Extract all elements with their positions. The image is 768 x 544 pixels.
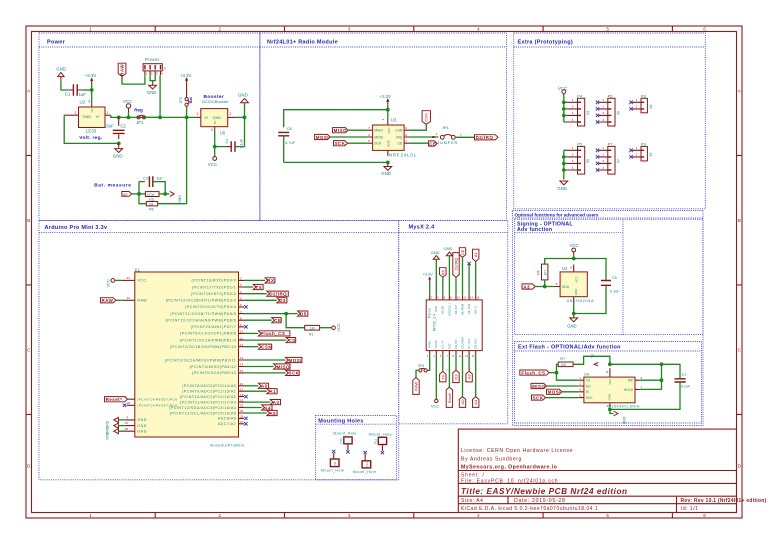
svg-text:KiCad E.D.A. kicad 5.0.2-bee7: KiCad E.D.A. kicad 5.0.2-bee76a070ubuntu… xyxy=(461,506,598,512)
resistor R4 (signing pullup) xyxy=(537,264,548,280)
svg-text:VO: VO xyxy=(90,107,94,112)
junction VCC rail xyxy=(127,116,131,120)
svg-text:MISO: MISO xyxy=(277,364,290,369)
no-connect x r8 PD7 xyxy=(244,325,247,328)
svg-text:X4: X4 xyxy=(586,111,590,115)
svg-text:JP3: JP3 xyxy=(418,364,425,368)
svg-text:Size: A4: Size: A4 xyxy=(461,498,483,504)
svg-text:17: 17 xyxy=(240,387,244,391)
svg-text:C1: C1 xyxy=(65,91,71,96)
ground GND (below C2) xyxy=(113,143,123,158)
svg-text:MOSI: MOSI xyxy=(374,135,383,139)
no-connect x r5 PD4 xyxy=(244,305,247,308)
junction VCC rail (signing) xyxy=(572,257,576,261)
svg-text:VCC: VCC xyxy=(575,275,579,282)
svg-text:VCC: VCC xyxy=(137,279,146,283)
svg-text:14: 14 xyxy=(240,363,244,367)
global label A4 (MysX, vertical) xyxy=(473,397,479,408)
ground GND (booster, flipped up) xyxy=(238,93,248,118)
global label CSN (K1) xyxy=(258,344,272,349)
K1 left pin names xyxy=(137,279,177,434)
svg-text:2: 2 xyxy=(230,112,232,116)
svg-text:(PCINT2/OC1B/SS/PWM)PB2/10: (PCINT2/OC1B/SS/PWM)PB2/10 xyxy=(170,345,236,349)
title block frame xyxy=(458,429,736,512)
global label MOSI (K1) xyxy=(286,357,302,362)
power symbol VCC (R1 pullup) xyxy=(332,323,341,332)
wire r14 to SCK xyxy=(244,372,286,374)
global label A3 xyxy=(270,400,280,405)
wire VCC to K1 xyxy=(115,279,121,281)
svg-text:25: 25 xyxy=(240,409,244,413)
svg-text:10: 10 xyxy=(240,330,244,334)
global label CE (MysX, vertical) xyxy=(459,248,465,258)
mounting hole P12 xyxy=(369,432,392,454)
svg-text:12: 12 xyxy=(240,343,244,347)
junction C4 left xyxy=(213,145,217,149)
P2 bottom internal pin names xyxy=(428,337,478,348)
junction battery rail / JP2 xyxy=(185,116,189,120)
mounting hole P13 xyxy=(353,451,376,474)
svg-text:U3: U3 xyxy=(391,118,397,123)
svg-text:4K7: 4K7 xyxy=(543,270,547,276)
K1 reset pin stubs xyxy=(127,399,135,405)
svg-text:X5: X5 xyxy=(586,159,590,163)
svg-text:D2/IRQ: D2/IRQ xyxy=(455,258,459,270)
wire +3.3V down to U3 xyxy=(387,104,389,120)
frame zone letters right xyxy=(738,89,742,469)
no-connect x marks P8 xyxy=(629,101,632,111)
svg-text:CE: CE xyxy=(460,249,465,255)
wire U2 GND loop to GND node xyxy=(64,115,119,143)
svg-text:Nrf24L01+ Radio Module: Nrf24L01+ Radio Module xyxy=(267,40,338,46)
connector P2 MYSX_2.4 body xyxy=(426,300,482,351)
svg-text:P6: P6 xyxy=(608,93,614,98)
svg-text:SO: SO xyxy=(586,384,591,388)
svg-text:A0: A0 xyxy=(460,399,465,405)
svg-text:6: 6 xyxy=(703,513,706,518)
svg-text:2: 2 xyxy=(75,111,77,115)
svg-text:(PCINT14/RESET)PC6: (PCINT14/RESET)PC6 xyxy=(137,398,177,402)
svg-text:D0_RX: D0_RX xyxy=(441,305,445,314)
svg-text:4: 4 xyxy=(477,513,480,518)
jumper JP2 Bat (vertical) xyxy=(179,83,193,106)
global label RAW (MysX, vertical) xyxy=(413,378,419,395)
capacitor C4 0.1uF xyxy=(225,138,244,152)
junction Flash_CS node xyxy=(555,371,559,375)
global label A2 (MysX, vertical) xyxy=(466,371,472,382)
svg-text:P9: P9 xyxy=(641,141,647,146)
svg-text:VCC: VCC xyxy=(123,99,132,104)
svg-text:CSN: CSN xyxy=(395,129,403,133)
svg-text:16: 16 xyxy=(240,382,244,386)
jumper JP4 JUMPER xyxy=(436,125,462,145)
wire C1 to +3.3V node xyxy=(82,89,91,91)
svg-text:Arduino Pro Mini 3.3v: Arduino Pro Mini 3.3v xyxy=(45,225,108,231)
capacitor C6 4.7uF xyxy=(278,126,296,162)
wire c6 bottom to A0 xyxy=(462,356,464,397)
power symbol VCC (extra header) xyxy=(558,86,567,94)
svg-text:0.1uF: 0.1uF xyxy=(681,385,691,389)
section box: Extra (Prototyping) xyxy=(514,33,706,209)
no-connect x marks P9 xyxy=(629,149,632,159)
global label MOSI (flash) xyxy=(547,389,563,394)
svg-text:24: 24 xyxy=(127,296,131,300)
ground GND (extra header) xyxy=(557,181,568,191)
power symbol +3.3V (MysX top c1) xyxy=(423,273,433,282)
hierarchical label GND (bat measure) xyxy=(170,191,182,203)
svg-text:+3.3V: +3.3V xyxy=(85,73,97,78)
no-connect x r17 PC2 xyxy=(244,395,247,398)
power symbol VCC (MysX bottom) xyxy=(431,399,440,408)
wire A3 to U4 xyxy=(535,286,555,288)
svg-text:WP: WP xyxy=(628,379,634,383)
svg-text:Mount_Hole: Mount_Hole xyxy=(321,469,344,473)
wire c1 top xyxy=(429,282,431,295)
svg-text:(PCINT13/SCL/ADC5)PC5/19/A5: (PCINT13/SCL/ADC5)PC5/19/A5 xyxy=(170,411,237,415)
svg-text:1: 1 xyxy=(196,112,198,116)
wire MOSI to U3 xyxy=(330,136,367,138)
wire c7 top with no-connect xyxy=(468,264,470,295)
svg-text:1uF: 1uF xyxy=(156,177,163,181)
svg-text:IRQ: IRQ xyxy=(396,135,402,139)
section title underline: Extra (Prototyping) xyxy=(514,46,706,48)
wire C5 bottom to GND node xyxy=(574,285,606,313)
wire WP to VCC rail xyxy=(640,364,662,380)
junction WP node xyxy=(660,378,664,382)
svg-text:6: 6 xyxy=(703,27,706,32)
svg-text:Rev: Rev 10.1 (Nrf24l01+ editi: Rev: Rev 10.1 (Nrf24l01+ edition) xyxy=(681,498,767,504)
section title underline: Optional functions xyxy=(513,217,704,219)
svg-text:MISO: MISO xyxy=(532,384,545,389)
wire MISO to U6 xyxy=(547,385,579,387)
svg-text:R6: R6 xyxy=(149,207,154,211)
svg-text:MOSI: MOSI xyxy=(548,390,561,395)
svg-text:GND: GND xyxy=(113,154,123,159)
svg-text:VI: VI xyxy=(96,115,100,119)
svg-text:C4: C4 xyxy=(225,139,229,144)
svg-text:11: 11 xyxy=(240,336,243,340)
connector P1 Power xyxy=(143,57,166,76)
svg-text:SCK: SCK xyxy=(335,141,346,146)
wire c5 top xyxy=(455,277,457,294)
svg-text:R7: R7 xyxy=(560,357,565,361)
svg-text:Flash_CS: Flash_CS xyxy=(521,370,545,375)
wire HOLD to WP node xyxy=(640,380,662,389)
svg-text:RAW: RAW xyxy=(102,298,114,303)
svg-text:P4: P4 xyxy=(577,93,583,98)
wire VCC to rail xyxy=(128,112,130,117)
svg-text:19: 19 xyxy=(240,398,244,402)
svg-text:JP2: JP2 xyxy=(179,97,183,103)
svg-text:Power: Power xyxy=(47,40,66,46)
K1 right pin names xyxy=(165,279,237,426)
power symbol VCC (K1 left) xyxy=(106,279,115,288)
svg-text:(PCINT20/XCK/T0)PD4/4: (PCINT20/XCK/T0)PD4/4 xyxy=(185,305,236,309)
svg-text:CSN: CSN xyxy=(424,113,429,122)
svg-text:CS: CS xyxy=(586,379,591,383)
svg-text:3: 3 xyxy=(211,128,213,132)
wire booster out right to GND xyxy=(236,116,244,118)
wire R7 to VCC rail (staircase) xyxy=(573,356,610,364)
svg-text:+RAW: +RAW xyxy=(428,340,432,348)
svg-text:D2/IRQ: D2/IRQ xyxy=(269,292,287,297)
svg-text:Id: 1/1: Id: 1/1 xyxy=(681,506,698,512)
svg-text:(PCINT18/INT0)PD2/2: (PCINT18/INT0)PD2/2 xyxy=(191,292,236,296)
global label D2/IRQ (radio) xyxy=(475,135,499,140)
global label SCK (flash) xyxy=(532,395,546,400)
svg-text:470K: 470K xyxy=(147,193,156,197)
junction P4 pin taps xyxy=(562,101,566,105)
svg-text:MYSX_2.4: MYSX_2.4 xyxy=(432,314,436,331)
wire Reset* to K1 xyxy=(128,398,130,400)
svg-text:4: 4 xyxy=(477,27,480,32)
svg-text:10uF: 10uF xyxy=(104,124,114,129)
svg-text:(PCINT22/OC0A/AIN0/PWM)PD6/6: (PCINT22/OC0A/AIN0/PWM)PD6/6 xyxy=(166,319,237,323)
svg-text:VI: VI xyxy=(204,116,208,120)
section box: Signing - OPTIONAL Adv function xyxy=(515,219,704,334)
wire c3 top xyxy=(442,277,444,294)
wire c3 bottom to TX xyxy=(442,356,444,371)
svg-text:MysX 2.4: MysX 2.4 xyxy=(409,225,436,231)
wire R1 to VCC xyxy=(320,327,332,329)
wire IRQ to JP4 xyxy=(409,136,438,138)
global label CE (radio) xyxy=(429,141,438,146)
svg-text:VCCIN: VCCIN xyxy=(434,340,438,348)
svg-text:D5_PWM: D5_PWM xyxy=(460,337,464,348)
svg-text:3: 3 xyxy=(348,27,351,32)
svg-text:(PCINT12/SDA/ADC4)PC4/18/A4: (PCINT12/SDA/ADC4)PC4/18/A4 xyxy=(169,406,236,410)
section title underline: Arduino Pro Mini 3.3v xyxy=(39,232,399,234)
section title underline: Nrf24L01+ Radio Module xyxy=(260,46,507,48)
power symbol +3.3V (at JP2 Bat) xyxy=(180,73,192,83)
ground GND (top-left of Power) xyxy=(56,67,66,81)
svg-text:GND: GND xyxy=(137,430,147,434)
svg-text:1: 1 xyxy=(89,513,92,518)
hierarchical label GND (flash) xyxy=(610,409,626,424)
P2 bottom pin stubs xyxy=(430,351,476,356)
svg-text:JUMPER: JUMPER xyxy=(437,140,458,145)
global label Flash_CS (flash) xyxy=(520,370,549,375)
svg-text:1M: 1M xyxy=(149,202,154,206)
global label D3 (MysX, vertical) xyxy=(453,370,459,383)
K1 RAW pin stub xyxy=(121,299,135,301)
junction R5/C3 right xyxy=(163,192,167,196)
section title underline: MysX 2.4 xyxy=(399,232,508,234)
no-connect x r22 ADC7 xyxy=(244,422,247,425)
ground GND (below P1) xyxy=(147,85,157,95)
svg-text:P13: P13 xyxy=(365,462,369,468)
svg-text:A0: A0 xyxy=(123,192,129,197)
global label CS xyxy=(286,338,296,343)
wire Flash_CS to junction xyxy=(549,372,556,374)
svg-text:DC/DCBooster: DC/DCBooster xyxy=(202,99,229,104)
svg-text:+3.3V: +3.3V xyxy=(180,73,192,78)
svg-text:Ext Flash - OPTIONAL/Adv funct: Ext Flash - OPTIONAL/Adv function xyxy=(518,345,621,351)
svg-text:X6: X6 xyxy=(616,111,620,115)
wire r12 to MOSI xyxy=(244,359,286,361)
svg-text:RAW: RAW xyxy=(415,382,419,391)
capacitor C7 0.1uF xyxy=(675,373,692,389)
svg-text:D1_TX: D1_TX xyxy=(441,340,445,348)
wire +3.3V rail to C6 xyxy=(284,110,388,128)
section title underline: Ext Flash xyxy=(515,350,702,352)
svg-text:GND: GND xyxy=(238,93,248,98)
svg-text:SCK: SCK xyxy=(289,371,300,376)
svg-text:Mount_Hole: Mount_Hole xyxy=(369,432,392,436)
frame zone ticks top xyxy=(155,26,672,32)
svg-text:5: 5 xyxy=(606,513,609,518)
svg-text:Mount_Hole: Mount_Hole xyxy=(353,470,376,474)
wire r20 to A5 xyxy=(244,412,267,414)
section title underline: Mounting Holes xyxy=(316,423,397,425)
global label A1 xyxy=(267,389,277,394)
svg-text:GND: GND xyxy=(434,306,438,312)
svg-text:U2: U2 xyxy=(80,100,86,105)
section box: Ext Flash - OPTIONAL/Adv function xyxy=(515,342,702,424)
svg-text:5V: 5V xyxy=(213,121,217,125)
section box: MysX 2.4 xyxy=(399,220,508,423)
svg-text:GND: GND xyxy=(622,417,626,425)
no-connect x r21 ADC6 xyxy=(244,417,247,420)
connector P7 xyxy=(599,141,621,174)
wire r6 to D5 node xyxy=(244,313,298,315)
svg-text:GND: GND xyxy=(387,140,391,148)
label 5V mark (rotated, on rail) xyxy=(591,353,599,366)
svg-text:LE33: LE33 xyxy=(86,129,97,134)
wire C4 left to booster bottom xyxy=(215,146,227,148)
svg-text:File: EasyPCB_10_nrf24l01p.sch: File: EasyPCB_10_nrf24l01p.sch xyxy=(461,478,558,484)
resistor R1 xyxy=(305,325,320,336)
svg-text:GND: GND xyxy=(213,116,222,120)
connector P6 xyxy=(599,93,621,126)
svg-text:Bat. measure: Bat. measure xyxy=(94,183,131,189)
global label MISO (flash) xyxy=(531,383,547,388)
svg-text:Reset*: Reset* xyxy=(106,397,123,402)
svg-text:Reset*: Reset* xyxy=(448,392,452,403)
section box: Power xyxy=(39,33,260,220)
svg-text:C7: C7 xyxy=(682,373,687,377)
svg-text:(PCINT16/RXD)PD0/0: (PCINT16/RXD)PD0/0 xyxy=(192,279,237,283)
global label RAW (K1) xyxy=(100,298,116,303)
svg-text:15: 15 xyxy=(240,369,244,373)
wire MISO to U3 xyxy=(348,129,368,131)
resistor R5 470K xyxy=(145,192,159,202)
svg-text:+3.3V: +3.3V xyxy=(423,273,433,277)
ground GND (signing) xyxy=(567,314,577,329)
junction P5 pin taps xyxy=(562,155,566,159)
svg-text:28: 28 xyxy=(125,427,129,431)
svg-text:VCC: VCC xyxy=(570,243,579,248)
svg-text:GND: GND xyxy=(574,288,578,296)
frame zone numbers bottom xyxy=(89,513,706,518)
ground GND (MysX top c4, flipped) xyxy=(444,246,453,256)
svg-text:Optional functions for advance: Optional functions for advanced users xyxy=(515,213,599,218)
svg-text:D4_INT: D4_INT xyxy=(454,305,458,314)
svg-text:13: 13 xyxy=(240,356,244,360)
svg-text:VCC: VCC xyxy=(208,162,217,167)
svg-text:GND: GND xyxy=(147,90,157,95)
wire CSN label to U3 xyxy=(409,124,426,130)
wire r4 to D3 xyxy=(244,299,277,301)
svg-text:SCK: SCK xyxy=(586,396,594,400)
svg-text:CE: CE xyxy=(274,318,281,323)
junction U4 GND node xyxy=(572,312,576,316)
svg-text:SI: SI xyxy=(586,390,589,394)
svg-text:GND: GND xyxy=(567,324,576,329)
connector P5 xyxy=(567,141,590,174)
wire SCK to U6 xyxy=(546,397,579,399)
svg-text:1uF: 1uF xyxy=(79,92,87,97)
wire r19 to A4 xyxy=(244,407,262,409)
junction D5 node xyxy=(284,312,288,316)
svg-text:P7: P7 xyxy=(608,141,614,146)
svg-text:1: 1 xyxy=(106,111,108,115)
svg-text:A4: A4 xyxy=(264,405,271,410)
svg-text:D8_SCK: D8_SCK xyxy=(467,304,471,314)
resistor R6 1M xyxy=(146,202,157,212)
svg-text:(PCINT10/ADC2)PC2/16/A2: (PCINT10/ADC2)PC2/16/A2 xyxy=(180,395,237,399)
global label Reset* (K1) xyxy=(105,397,128,402)
svg-text:3: 3 xyxy=(348,513,351,518)
svg-text:U4: U4 xyxy=(562,266,568,271)
capacitor C5 0.1uF xyxy=(601,276,620,293)
wire GND trunk to P5 pins xyxy=(564,150,567,179)
svg-text:P12: P12 xyxy=(374,439,378,445)
svg-text:U6: U6 xyxy=(584,373,589,377)
mounting hole P11 xyxy=(321,450,344,473)
svg-text:(PCINT3/OC2A/MOSI/PWM)PB3/11: (PCINT3/OC2A/MOSI/PWM)PB3/11 xyxy=(165,358,237,362)
svg-text:5: 5 xyxy=(606,27,609,32)
global label A0 (K1) xyxy=(258,383,268,388)
junction battery rail / P1 pin4 xyxy=(158,116,162,120)
svg-text:(PCINT21/OC0B/T1/PWM)PD5/5: (PCINT21/OC0B/T1/PWM)PD5/5 xyxy=(170,312,236,316)
svg-text:GND: GND xyxy=(178,195,182,203)
global label A0 (MysX, vertical) xyxy=(459,397,465,408)
svg-text:JP1: JP1 xyxy=(136,120,144,125)
global label MISO (K1) xyxy=(274,364,290,369)
svg-text:X9: X9 xyxy=(649,152,653,156)
no-connect x marks P6 xyxy=(596,101,599,124)
wire booster right down to C4 xyxy=(236,117,245,146)
wire r16 to A1 xyxy=(244,390,267,392)
radio module U3 NRF24L01 xyxy=(368,118,417,158)
junction U6 VCC node xyxy=(608,362,612,366)
svg-text:A2: A2 xyxy=(467,373,472,379)
wire P1 pins 2,3 to GND xyxy=(150,75,155,85)
svg-text:Adv function: Adv function xyxy=(517,227,552,233)
wire C6 bottom to GND rail xyxy=(284,161,388,163)
ground GND (MysX top c2, flipped) xyxy=(431,250,440,259)
frame zone ticks bottom xyxy=(155,513,672,519)
svg-text:26: 26 xyxy=(240,415,244,419)
svg-text:A1: A1 xyxy=(269,389,276,394)
global label SCK (radio) xyxy=(334,141,348,146)
wire divider left branch xyxy=(139,182,146,204)
wire P1 pin4 down to rail xyxy=(159,75,161,117)
wire RAW to P1 pin1 xyxy=(122,75,145,84)
global label CSN (radio, vertical) xyxy=(422,111,430,125)
svg-text:0.1uF: 0.1uF xyxy=(610,290,620,294)
global label D2/IRQ (K1) xyxy=(267,291,289,296)
svg-text:U5: U5 xyxy=(220,130,226,135)
svg-text:Mount_Hole: Mount_Hole xyxy=(333,431,356,435)
svg-text:Power: Power xyxy=(145,57,160,62)
no-connect x marks P7 xyxy=(596,149,599,172)
wire VCC rail to C7 xyxy=(610,364,680,379)
wire SCK to U3 xyxy=(348,142,368,144)
global label A1 (MysX, vertical) xyxy=(472,249,478,261)
hierarchical labels GND x3 (K1 left) xyxy=(106,417,119,439)
